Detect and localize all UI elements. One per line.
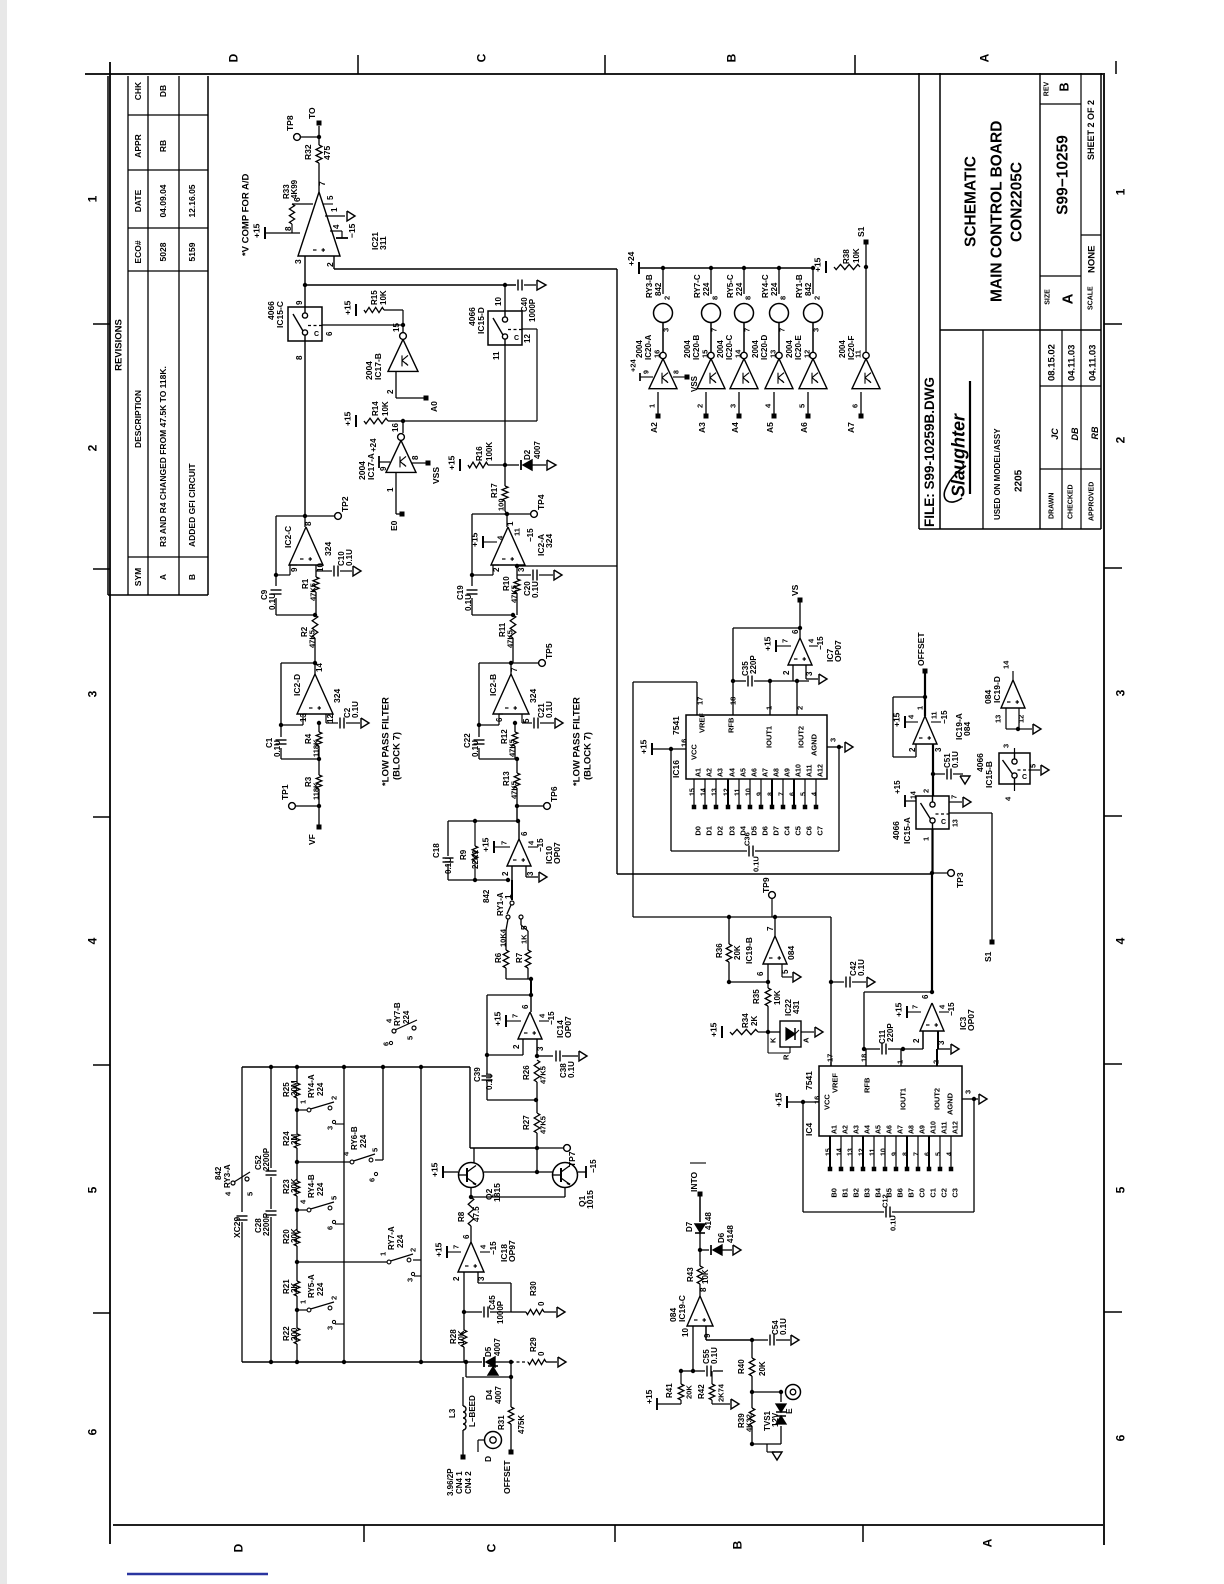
resistor R29 0: [511, 1361, 528, 1363]
power +15 R15: [355, 304, 357, 316]
svg-text:7: 7: [911, 1005, 920, 1009]
svg-text:6: 6: [85, 1428, 99, 1435]
resistor R34 2K: [730, 1029, 758, 1034]
switch RY1-A 842: [511, 880, 513, 900]
resistor R43 10K: [699, 1250, 701, 1266]
svg-text:12: 12: [859, 1148, 866, 1156]
svg-text:4148: 4148: [704, 1212, 713, 1230]
svg-text:A10: A10: [796, 764, 803, 777]
svg-text:R31: R31: [497, 1415, 506, 1430]
svg-text:1015: 1015: [585, 1190, 595, 1209]
svg-text:D: D: [231, 1543, 245, 1552]
node R4 R3: [317, 757, 321, 761]
svg-text:+15: +15: [470, 532, 480, 547]
svg-text:OP07: OP07: [552, 842, 562, 864]
test point TP4: [507, 513, 531, 515]
svg-text:11: 11: [513, 528, 522, 536]
wire IC2-A pin2: [493, 564, 499, 566]
svg-text:RFB: RFB: [863, 1077, 872, 1093]
svg-text:0.1U: 0.1U: [951, 751, 960, 768]
capacitor C55 0.1U: [693, 1370, 705, 1372]
svg-text:7: 7: [452, 1245, 461, 1249]
wire IC17-A pin8 to VSS: [411, 462, 426, 464]
svg-text:200: 200: [290, 1327, 299, 1341]
power +15 IC18: [446, 1246, 448, 1258]
svg-text:D2: D2: [716, 826, 725, 836]
switch RY6-B 224: [295, 1160, 299, 1164]
svg-text:224: 224: [770, 282, 779, 296]
svg-text:IC2-C: IC2-C: [283, 526, 293, 548]
svg-text:04.11.03: 04.11.03: [1066, 345, 1077, 381]
svg-text:VCC: VCC: [690, 744, 699, 760]
svg-text:14: 14: [837, 1148, 844, 1156]
svg-text:12: 12: [724, 788, 731, 796]
svg-text:R41: R41: [665, 1383, 674, 1398]
svg-text:0: 0: [537, 1351, 546, 1356]
svg-text:+15: +15: [481, 837, 491, 852]
svg-text:7: 7: [710, 328, 719, 332]
svg-text:L−BEED: L−BEED: [468, 1395, 477, 1427]
svg-text:7: 7: [511, 1014, 520, 1018]
svg-text:1000P: 1000P: [528, 298, 537, 322]
ladder left frame wire: [241, 1067, 243, 1212]
svg-text:C7: C7: [816, 826, 825, 836]
svg-text:10: 10: [881, 1148, 888, 1156]
svg-text:4K32: 4K32: [745, 1414, 754, 1432]
svg-text:13: 13: [712, 788, 719, 796]
svg-text:+15: +15: [763, 636, 773, 651]
svg-text:3: 3: [964, 1090, 973, 1094]
power +15 IC16 VCC: [651, 743, 653, 755]
ladder top bus: [242, 1066, 470, 1068]
svg-text:4148: 4148: [726, 1225, 735, 1243]
svg-text:RFB: RFB: [727, 717, 736, 733]
wire node to C40 line: [303, 283, 307, 287]
svg-text:224: 224: [359, 1134, 368, 1148]
resistor R4 118K: [318, 723, 320, 732]
svg-text:B: B: [730, 1540, 744, 1549]
svg-text:B7: B7: [907, 1188, 916, 1198]
svg-text:22K1: 22K1: [471, 849, 480, 869]
svg-text:6: 6: [790, 792, 797, 796]
svg-text:2: 2: [922, 789, 931, 793]
svg-text:47K5: 47K5: [539, 1116, 548, 1134]
node OFFSET right: [923, 669, 928, 674]
svg-text:B5: B5: [885, 1188, 894, 1198]
svg-text:+15: +15: [813, 257, 823, 272]
svg-text:IC15-A: IC15-A: [902, 817, 912, 844]
wire L3 to CN4: [462, 1430, 464, 1455]
capacitor C38 0.1U: [537, 1055, 553, 1057]
svg-text:475K: 475K: [517, 1415, 526, 1434]
svg-text:14: 14: [701, 788, 708, 796]
svg-text:12: 12: [523, 334, 532, 343]
zone ticks left: [93, 323, 110, 325]
svg-text:+24: +24: [626, 251, 636, 266]
capacitor C42 0.1U: [829, 980, 833, 984]
svg-text:2K: 2K: [750, 1016, 759, 1026]
test point TP2: [305, 515, 335, 517]
resistor R21 2K: [294, 1281, 300, 1296]
svg-text:10: 10: [494, 297, 503, 306]
connector E jack: [786, 1385, 801, 1400]
capacitor C51 0.1U: [933, 773, 945, 775]
svg-text:A7: A7: [763, 768, 770, 777]
svg-text:IC20-D: IC20-D: [760, 334, 769, 360]
svg-text:REV: REV: [1044, 81, 1051, 96]
capacitor C28 2200P: [266, 1210, 277, 1212]
node IC14 out: [529, 993, 533, 997]
svg-text:D5: D5: [484, 1346, 493, 1357]
svg-text:0.1U: 0.1U: [485, 1073, 494, 1090]
svg-text:10K: 10K: [379, 290, 388, 305]
svg-text:R30: R30: [529, 1281, 538, 1296]
wire S1 to IC20-F: [865, 267, 867, 352]
feedback wire C1: [281, 662, 315, 664]
svg-text:2: 2: [330, 1096, 339, 1100]
svg-text:18: 18: [860, 1054, 869, 1062]
test point TP7: [535, 1146, 539, 1150]
svg-text:A4: A4: [730, 768, 737, 777]
capacitor C10 0.1U: [316, 570, 332, 572]
svg-text:XC29: XC29: [232, 1216, 242, 1238]
svg-text:20K: 20K: [290, 1178, 299, 1193]
svg-text:R34: R34: [741, 1013, 750, 1028]
svg-text:3: 3: [536, 1046, 545, 1051]
node TO: [317, 121, 322, 126]
svg-text:A5: A5: [741, 768, 748, 777]
svg-text:47K5: 47K5: [508, 739, 517, 757]
svg-text:5: 5: [1113, 1186, 1127, 1193]
wire IC19-A pin3 down: [932, 744, 934, 796]
svg-text:B0: B0: [830, 1188, 839, 1198]
feedback loop IC10: [448, 820, 518, 822]
op-amp IC19-B 084: [763, 936, 787, 964]
svg-text:2004: 2004: [751, 340, 760, 358]
wire TP6 node down: [516, 806, 518, 821]
arrow bottom gnd: [766, 1444, 768, 1452]
resistor R23 20K: [294, 1181, 300, 1196]
svg-text:3: 3: [326, 1326, 335, 1330]
svg-text:DESCRIPTION: DESCRIPTION: [133, 390, 143, 448]
power +15 R34: [721, 1026, 723, 1038]
resistor R16 100K: [468, 462, 488, 468]
capacitor C54 0.1U: [752, 1339, 768, 1341]
wire TVS bottom join: [752, 1443, 781, 1445]
arrow R42 gnd: [711, 1400, 713, 1404]
svg-text:6: 6: [851, 404, 860, 408]
power +15 IC2-A: [482, 536, 484, 548]
svg-text:4: 4: [85, 937, 99, 944]
switch RY4-A 224: [295, 1108, 299, 1112]
svg-text:10K4: 10K4: [499, 928, 508, 947]
svg-text:FILE: S99-10259B.DWG: FILE: S99-10259B.DWG: [922, 377, 937, 527]
svg-text:OFFSET: OFFSET: [502, 1460, 512, 1494]
svg-text:DB: DB: [158, 85, 168, 97]
connector jack D: [485, 1432, 502, 1449]
svg-text:L3: L3: [448, 1408, 457, 1418]
wire IC19-B pin6: [767, 964, 769, 982]
svg-text:2: 2: [512, 1044, 521, 1049]
svg-text:08.15.02: 08.15.02: [1046, 344, 1057, 381]
op-amp IC19-C 084: [687, 1296, 713, 1326]
node INTO: [698, 1192, 703, 1197]
svg-text:CHECKED: CHECKED: [1068, 484, 1075, 519]
switch RY7-A 224: [295, 1260, 299, 1264]
wire IC17-A pin1 to E0: [395, 473, 397, 514]
svg-text:E: E: [784, 1408, 794, 1414]
svg-text:A8: A8: [774, 768, 781, 777]
inductor L3 L-BEED: [462, 1377, 464, 1406]
wire IC15-C pin6 right: [322, 324, 403, 326]
svg-text:USED ON MODEL/ASSY: USED ON MODEL/ASSY: [993, 428, 1002, 520]
svg-text:IC16: IC16: [671, 760, 681, 778]
svg-text:5: 5: [371, 1148, 380, 1152]
node VS: [798, 598, 803, 603]
IC4 AGND pin3 arrow: [962, 1098, 978, 1100]
svg-text:−15: −15: [489, 1241, 498, 1255]
svg-text:A10: A10: [931, 1121, 938, 1134]
svg-text:AGND: AGND: [946, 1092, 955, 1115]
svg-text:324: 324: [544, 534, 554, 548]
node TP5: [509, 661, 513, 665]
svg-text:5: 5: [246, 1192, 255, 1196]
svg-text:−15: −15: [816, 636, 825, 650]
svg-text:5: 5: [1029, 764, 1038, 768]
capacitor C39 0.1U: [486, 1055, 488, 1074]
wire IC19-C pin10 down: [692, 1326, 694, 1371]
svg-text:+15: +15: [493, 1011, 503, 1026]
resistor R25 20M: [295, 1065, 299, 1069]
resistor R11 47K5: [510, 615, 516, 638]
svg-text:0.1U: 0.1U: [567, 1061, 576, 1078]
svg-text:842: 842: [214, 1166, 223, 1180]
svg-text:11: 11: [854, 350, 863, 358]
svg-text:7: 7: [317, 181, 327, 186]
resistor R17 100: [504, 465, 506, 486]
node A0: [424, 396, 429, 401]
svg-text:224: 224: [316, 1182, 325, 1196]
wire IC15-D pin12 loop: [522, 328, 537, 330]
capacitor C29: [237, 1215, 248, 1217]
op-amp IC2-C 324: [304, 516, 306, 527]
svg-text:7: 7: [510, 667, 519, 672]
node IC2-A output TP4: [504, 513, 507, 515]
bypass C36 0.1U loop: [670, 749, 672, 851]
svg-text:OP07: OP07: [563, 1016, 573, 1038]
wire IC5 pin2: [922, 1031, 924, 1049]
svg-text:431: 431: [792, 1000, 801, 1014]
svg-text:3.96/2P: 3.96/2P: [446, 1468, 455, 1496]
svg-text:IC20-C: IC20-C: [725, 334, 734, 360]
wire IC4 IOUT1 pin1 up: [900, 1049, 902, 1066]
svg-text:12.16.05: 12.16.05: [187, 184, 197, 217]
svg-text:RY7-A: RY7-A: [387, 1226, 396, 1250]
power +15 R16: [459, 459, 461, 471]
svg-text:2004: 2004: [838, 340, 847, 358]
svg-text:4K99: 4K99: [290, 179, 299, 199]
svg-text:7: 7: [743, 328, 752, 332]
svg-text:0.1U: 0.1U: [273, 740, 282, 757]
svg-text:ADDED GFI CIRCUIT: ADDED GFI CIRCUIT: [187, 463, 197, 547]
svg-text:13: 13: [994, 715, 1003, 723]
svg-text:084: 084: [786, 946, 796, 960]
svg-text:1: 1: [299, 1300, 308, 1304]
resistor R33 4K99: [292, 203, 313, 205]
svg-text:VREF: VREF: [831, 1073, 840, 1093]
svg-text:CN4 2: CN4 2: [464, 1471, 473, 1494]
svg-text:47K5: 47K5: [506, 630, 515, 648]
svg-text:0.1U: 0.1U: [345, 549, 354, 566]
svg-text:7: 7: [500, 841, 509, 845]
svg-text:1000P: 1000P: [496, 1300, 505, 1324]
wire IC4 VREF pin17: [830, 1062, 832, 1066]
node IC2-D output: [313, 661, 317, 665]
ladder vertical x344: [342, 1065, 346, 1069]
svg-text:16: 16: [680, 739, 689, 747]
op-amp IC2-A 324: [506, 514, 508, 527]
svg-text:RY5-C: RY5-C: [726, 274, 735, 298]
svg-text:11: 11: [735, 788, 742, 796]
svg-text:IC19-B: IC19-B: [744, 937, 754, 964]
svg-text:0.1U: 0.1U: [471, 740, 480, 757]
wire IC4 IOUT2 pin2 up: [936, 1049, 938, 1066]
wire IC15-A pin1 to TP3: [931, 829, 933, 873]
svg-text:2K: 2K: [290, 1283, 299, 1293]
svg-text:D: D: [226, 53, 240, 62]
svg-text:IOUT2: IOUT2: [933, 1088, 942, 1110]
svg-text:TP2: TP2: [340, 496, 350, 512]
svg-text:A3: A3: [854, 1125, 861, 1134]
svg-text:9: 9: [703, 1333, 712, 1338]
node R14 inverter IC17-A: [401, 419, 405, 423]
svg-text:R16: R16: [475, 446, 484, 461]
capacitor C45 1000P: [464, 1311, 482, 1313]
svg-text:5: 5: [781, 969, 790, 974]
svg-text:0.1U: 0.1U: [268, 593, 277, 610]
svg-text:3: 3: [1002, 744, 1011, 748]
svg-text:3: 3: [829, 738, 838, 742]
svg-text:SCALE: SCALE: [1088, 286, 1095, 310]
svg-text:R40: R40: [737, 1359, 746, 1374]
svg-text:5: 5: [406, 1036, 415, 1040]
resistor R41 20K: [678, 1384, 684, 1400]
svg-text:+15: +15: [639, 739, 649, 754]
svg-text:SCHEMATIC: SCHEMATIC: [963, 156, 980, 247]
svg-text:TP8: TP8: [285, 115, 295, 131]
svg-text:224: 224: [402, 1010, 411, 1024]
resistor R38 10K: [834, 264, 860, 269]
svg-text:1: 1: [1113, 188, 1127, 195]
svg-text:7: 7: [781, 639, 790, 643]
svg-text:A2: A2: [843, 1125, 850, 1134]
node D2: [503, 463, 507, 467]
svg-text:R7: R7: [515, 952, 524, 963]
feedback line IC7: [733, 627, 800, 629]
power +15 IC4 VCC: [786, 1096, 788, 1108]
svg-text:*LOW PASS FILTER: *LOW PASS FILTER: [571, 697, 582, 786]
wire to E jack: [752, 1391, 781, 1393]
op-amp IC5 OP07: [920, 1003, 944, 1031]
wire Q2 collector to TP7 line: [473, 1148, 475, 1163]
wire TO to R32: [318, 126, 320, 145]
wire VREF net long line: [633, 916, 831, 918]
feedback wire C22: [479, 662, 511, 664]
svg-text:6: 6: [521, 1004, 530, 1009]
svg-text:0.1U: 0.1U: [531, 581, 540, 598]
svg-text:C1: C1: [929, 1188, 938, 1198]
wire R6 R7 join: [505, 968, 507, 979]
wire node down to IC15-C: [304, 285, 306, 307]
svg-text:A9: A9: [785, 768, 792, 777]
svg-text:5: 5: [798, 404, 807, 408]
svg-text:R14: R14: [371, 401, 380, 416]
svg-text:A3: A3: [697, 422, 707, 433]
node IC5 out: [930, 990, 934, 994]
test point TP8: [294, 134, 301, 141]
arrow D6 gnd: [733, 1245, 741, 1255]
svg-text:9: 9: [757, 792, 764, 796]
svg-text:A0: A0: [429, 401, 439, 412]
wire IC20-B input to A3: [705, 392, 707, 414]
IC4 data pins: [829, 1136, 831, 1167]
wires IC19-D inputs: [1005, 708, 1007, 729]
svg-text:475: 475: [322, 146, 332, 160]
svg-text:+15: +15: [434, 1242, 444, 1257]
wire D7 to node: [699, 1233, 701, 1250]
svg-text:3: 3: [729, 404, 738, 408]
wire IOUT2 pin2 up: [796, 681, 798, 715]
wire IC10 pin3 gnd: [525, 866, 527, 877]
svg-text:14: 14: [911, 791, 918, 799]
power +15 R38: [825, 261, 827, 273]
svg-text:NONE: NONE: [1086, 246, 1097, 273]
svg-text:R43: R43: [686, 1267, 695, 1282]
svg-text:C5: C5: [794, 826, 803, 836]
svg-text:OFFSET: OFFSET: [916, 632, 926, 666]
svg-text:A3: A3: [718, 768, 725, 777]
bypass C12 0.1U loop: [802, 1102, 804, 1212]
power -15 Q1: [578, 1171, 586, 1173]
svg-text:10: 10: [746, 788, 753, 796]
svg-text:RY7-B: RY7-B: [393, 1002, 402, 1026]
svg-text:APPROVED: APPROVED: [1089, 482, 1096, 521]
svg-text:3: 3: [526, 871, 535, 876]
svg-text:D3: D3: [728, 826, 737, 836]
svg-text:324: 324: [528, 689, 538, 703]
resistor R24 2M: [294, 1134, 300, 1148]
svg-text:15: 15: [392, 323, 401, 332]
svg-text:1: 1: [379, 1252, 388, 1256]
svg-text:CON2205C: CON2205C: [1009, 162, 1026, 242]
svg-text:8: 8: [295, 355, 304, 360]
diode D2 4007: [505, 464, 519, 466]
svg-text:8: 8: [284, 226, 293, 231]
svg-text:+15: +15: [892, 712, 902, 727]
svg-text:IC2-D: IC2-D: [292, 674, 302, 696]
svg-text:47K5: 47K5: [510, 585, 519, 603]
svg-text:OP07: OP07: [966, 1009, 976, 1031]
diode D5 4007: [466, 1361, 482, 1363]
svg-text:1: 1: [299, 1100, 308, 1104]
power -15 IC10: [528, 846, 538, 848]
svg-text:5: 5: [85, 1186, 99, 1193]
svg-text:11: 11: [492, 351, 501, 360]
feedback loop IC19-A: [893, 696, 925, 698]
wire IC2-A pin3 long to comparator: [516, 565, 518, 566]
wire IC19-B pin5 gnd: [781, 964, 783, 977]
svg-text:OP97: OP97: [507, 1240, 517, 1262]
